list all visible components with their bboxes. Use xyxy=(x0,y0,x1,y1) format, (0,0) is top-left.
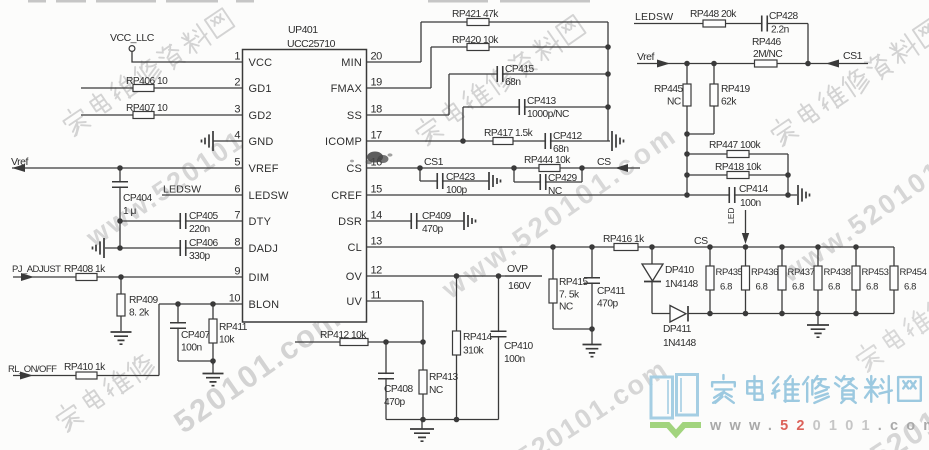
svg-text:LEDSW: LEDSW xyxy=(635,11,673,23)
resistor RP454 xyxy=(890,247,927,314)
svg-text:10: 10 xyxy=(229,293,241,305)
node VCC_LLC xyxy=(110,32,155,51)
svg-text:CP423: CP423 xyxy=(446,172,475,183)
svg-text:20: 20 xyxy=(371,51,383,63)
watermark bottom-right corner 520 xyxy=(864,381,929,450)
svg-text:CP409: CP409 xyxy=(422,211,451,222)
svg-text:CS: CS xyxy=(597,156,611,168)
svg-text:CP428: CP428 xyxy=(769,11,798,22)
wire OV pin12 xyxy=(367,273,543,279)
ground bottom join xyxy=(410,429,434,441)
svg-text:CP415: CP415 xyxy=(505,64,534,75)
capacitor CP428 xyxy=(762,11,799,36)
svg-text:CL: CL xyxy=(348,242,362,254)
svg-text:330p: 330p xyxy=(189,251,210,262)
svg-text:RP419: RP419 xyxy=(721,84,750,95)
capacitor CP404 xyxy=(112,168,152,248)
resistor RP418 row xyxy=(687,162,788,179)
diode DP411 1N4148 xyxy=(663,306,697,350)
wire RP415 CP411 join xyxy=(553,326,595,344)
svg-text:MIN: MIN xyxy=(341,57,362,69)
resistor RP414 branch xyxy=(453,276,493,420)
capacitor CP411 branch xyxy=(584,247,626,329)
svg-text:CP414: CP414 xyxy=(739,184,768,195)
resistor RP447 row xyxy=(687,140,788,158)
resistor RP416 xyxy=(603,234,645,251)
svg-text:ICOMP: ICOMP xyxy=(325,136,362,148)
wire GD1 pin2 xyxy=(81,87,243,89)
svg-text:RL_ON/OFF: RL_ON/OFF xyxy=(8,364,57,375)
watermark center www.520101.com xyxy=(435,119,683,305)
node Vref top right xyxy=(637,51,670,68)
op-amp U401 IC body UCC25710 xyxy=(243,24,367,322)
svg-text:GND: GND xyxy=(249,136,274,148)
resistor RP410 xyxy=(64,362,106,379)
svg-text:6.8: 6.8 xyxy=(792,282,804,293)
svg-text:62k: 62k xyxy=(721,97,737,108)
wire CP413 row xyxy=(463,107,608,141)
svg-text:RP421 47k: RP421 47k xyxy=(452,9,499,20)
capacitor CP405 xyxy=(180,211,218,235)
svg-text:100n: 100n xyxy=(181,343,202,354)
svg-text:RP413: RP413 xyxy=(429,372,458,383)
watermark bottom-right jiadian partial xyxy=(853,290,929,372)
svg-text:www.520101.com: www.520101.com xyxy=(709,418,929,434)
resistor RP448 xyxy=(690,9,737,27)
svg-text:DP411: DP411 xyxy=(663,324,692,335)
ground CREF xyxy=(798,185,810,205)
resistor RP453 xyxy=(852,247,889,314)
capacitor CP412 xyxy=(545,131,582,155)
svg-text:RP454: RP454 xyxy=(900,267,927,278)
node CS on bus xyxy=(694,235,708,247)
svg-text:UP401: UP401 xyxy=(288,24,318,36)
wire bus x687 xyxy=(684,131,690,195)
scan artifacts top edge xyxy=(28,0,590,3)
svg-text:CP410: CP410 xyxy=(504,341,533,352)
node Vref left arrow xyxy=(11,156,28,172)
wire ICOMP pin17 xyxy=(367,138,611,144)
svg-text:RP412 10k: RP412 10k xyxy=(320,330,367,341)
svg-text:68n: 68n xyxy=(505,77,521,88)
svg-text:RP416 1k: RP416 1k xyxy=(603,234,645,245)
svg-text:FMAX: FMAX xyxy=(331,83,363,95)
svg-text:4: 4 xyxy=(234,130,240,142)
svg-text:UCC25710: UCC25710 xyxy=(287,38,336,50)
svg-text:100n: 100n xyxy=(740,198,761,209)
resistor RP420 xyxy=(452,35,499,51)
svg-text:8. 2k: 8. 2k xyxy=(129,308,150,319)
svg-text:PJ_ADJUST: PJ_ADJUST xyxy=(12,264,61,275)
svg-text:100n: 100n xyxy=(504,354,525,365)
svg-text:68n: 68n xyxy=(553,144,569,155)
svg-text:DADJ: DADJ xyxy=(249,243,279,255)
watermark bottom-center 520101.com xyxy=(512,353,674,450)
svg-text:UV: UV xyxy=(346,296,362,308)
svg-text:6.8: 6.8 xyxy=(756,282,768,293)
wire RL to BLON xyxy=(13,375,159,377)
node OVP 160V xyxy=(505,263,542,292)
svg-text:CP411: CP411 xyxy=(597,286,626,297)
svg-text:1 μ: 1 μ xyxy=(123,206,136,217)
node PJ_ADJUST xyxy=(12,264,61,281)
svg-text:6.8: 6.8 xyxy=(828,282,840,293)
resistor RP419 branch xyxy=(687,64,750,135)
node CS1 top right xyxy=(808,50,868,68)
resistor RP421 xyxy=(452,9,499,26)
ground CP423 xyxy=(489,172,501,190)
node LED arrow xyxy=(726,207,749,244)
svg-text:7: 7 xyxy=(234,210,240,222)
svg-text:6.8: 6.8 xyxy=(904,282,916,293)
ground CL branch xyxy=(583,345,602,357)
svg-text:LED: LED xyxy=(726,207,736,224)
svg-text:CS1: CS1 xyxy=(424,156,444,168)
svg-text:CS1: CS1 xyxy=(843,50,863,62)
wire LED bottom bus xyxy=(652,311,894,317)
svg-text:CP405: CP405 xyxy=(189,211,218,222)
svg-text:CP412: CP412 xyxy=(553,131,582,142)
svg-text:RP444 10k: RP444 10k xyxy=(524,155,571,166)
wire right bus x608 xyxy=(605,22,611,141)
svg-text:NC: NC xyxy=(429,385,443,396)
svg-text:VREF: VREF xyxy=(249,163,279,175)
svg-text:RP447 100k: RP447 100k xyxy=(709,140,761,151)
wire LEDSW pin6 xyxy=(162,194,243,196)
node LEDSW pin6 xyxy=(163,184,201,196)
wire LEDSW row xyxy=(634,24,808,64)
svg-text:Vref: Vref xyxy=(637,51,654,63)
capacitor CP414 xyxy=(729,184,768,209)
svg-text:CREF: CREF xyxy=(331,190,362,202)
wire bottom join row xyxy=(386,417,499,429)
svg-text:9: 9 xyxy=(234,266,240,278)
logo url www.520101.com xyxy=(709,418,929,434)
svg-text:2: 2 xyxy=(234,77,240,89)
svg-text:17: 17 xyxy=(371,130,383,142)
resistor RP446 xyxy=(752,37,782,67)
wire FMAX pin19 xyxy=(367,47,609,88)
svg-text:RP414: RP414 xyxy=(463,332,492,343)
svg-text:5: 5 xyxy=(234,157,240,169)
svg-text:OVP: OVP xyxy=(507,263,528,275)
wire UV pin11 xyxy=(367,301,424,342)
wire RP412 row xyxy=(295,339,426,345)
svg-text:CP404: CP404 xyxy=(123,193,152,204)
logo book icon xyxy=(650,375,701,435)
watermark top-left xyxy=(60,7,236,137)
wire CL pin13 bus xyxy=(367,244,895,250)
svg-text:11: 11 xyxy=(371,290,382,302)
wire GND pin4 xyxy=(213,140,243,142)
svg-text:RP418 10k: RP418 10k xyxy=(715,162,762,173)
wire GD2 pin3 xyxy=(81,114,243,116)
svg-text:DIM: DIM xyxy=(249,272,270,284)
resistor RP408 xyxy=(64,264,106,281)
resistor RP438 xyxy=(814,247,851,314)
svg-text:19: 19 xyxy=(371,77,383,89)
resistor RP436 xyxy=(742,247,779,314)
capacitor CP423 branch xyxy=(420,168,489,196)
svg-text:RP436: RP436 xyxy=(751,267,778,278)
svg-text:3: 3 xyxy=(234,104,240,116)
svg-text:OV: OV xyxy=(346,271,363,283)
svg-text:NC: NC xyxy=(559,302,573,313)
capacitor CP429 branch xyxy=(514,168,582,197)
svg-text:RP437: RP437 xyxy=(788,267,815,278)
svg-text:CP429: CP429 xyxy=(548,173,577,184)
resistor RP435 xyxy=(706,247,743,314)
svg-text:CP413: CP413 xyxy=(527,96,556,107)
svg-text:CP407: CP407 xyxy=(181,330,210,341)
resistor RP412 xyxy=(320,330,368,346)
svg-text:RP417 1.5k: RP417 1.5k xyxy=(484,128,534,139)
ground RP411 xyxy=(203,361,224,386)
svg-text:GD1: GD1 xyxy=(249,83,272,95)
svg-text:14: 14 xyxy=(371,210,383,222)
node CS arrow right xyxy=(597,156,628,172)
wire CREF pin15 xyxy=(367,192,798,198)
svg-text:18: 18 xyxy=(371,104,383,116)
wire SS pin18 xyxy=(367,74,609,115)
ground RP409 xyxy=(111,332,132,344)
svg-text:DP410: DP410 xyxy=(665,265,694,276)
wire bus x788 xyxy=(785,154,791,195)
ink smudge near pin16 xyxy=(350,152,393,165)
wire DSR pin14 xyxy=(367,220,465,222)
svg-text:470p: 470p xyxy=(422,224,443,235)
svg-text:7. 5k: 7. 5k xyxy=(559,290,580,301)
svg-text:RP446: RP446 xyxy=(752,37,781,48)
resistor RP406 xyxy=(126,76,168,92)
svg-text:LEDSW: LEDSW xyxy=(249,190,290,202)
resistor RP415 branch xyxy=(549,247,588,329)
svg-text:13: 13 xyxy=(371,236,383,248)
logo text jiadianweixiuziliaowang xyxy=(712,375,921,403)
svg-text:RP406 10: RP406 10 xyxy=(126,76,168,87)
capacitor CP408 branch xyxy=(378,342,413,420)
svg-text:1N4148: 1N4148 xyxy=(665,279,699,290)
svg-text:6.8: 6.8 xyxy=(720,282,732,293)
svg-text:RP445: RP445 xyxy=(654,84,683,95)
wire VREF pin5 xyxy=(12,165,243,171)
svg-text:470p: 470p xyxy=(597,299,618,310)
ground LED bus xyxy=(807,314,829,338)
svg-text:12: 12 xyxy=(371,265,383,277)
svg-text:160V: 160V xyxy=(508,280,531,292)
watermark bottom-left 520101.com xyxy=(167,299,347,440)
svg-text:6: 6 xyxy=(234,184,240,196)
watermark bottom-left jiadian partial xyxy=(53,350,158,432)
ground pin4 xyxy=(202,131,214,151)
watermark center-top jiadian xyxy=(412,13,586,146)
wire CS pin16 xyxy=(367,165,641,171)
svg-text:RP408 1k: RP408 1k xyxy=(64,264,106,275)
wire DIM pin9 xyxy=(13,274,243,280)
svg-text:1: 1 xyxy=(234,51,240,63)
node CS1 label xyxy=(424,156,444,168)
svg-text:RP438: RP438 xyxy=(824,267,851,278)
svg-text:RP435: RP435 xyxy=(716,267,743,278)
ground DADJ xyxy=(93,238,105,258)
svg-text:RP409: RP409 xyxy=(129,295,158,306)
resistor RP437 xyxy=(778,247,815,314)
svg-text:RP410 1k: RP410 1k xyxy=(64,362,106,373)
svg-text:VCC_LLC: VCC_LLC xyxy=(110,32,155,44)
svg-text:CP408: CP408 xyxy=(384,384,413,395)
svg-text:220n: 220n xyxy=(189,224,210,235)
svg-text:RP448 20k: RP448 20k xyxy=(690,9,737,20)
ground DSR xyxy=(464,212,476,230)
watermark right www.520101.com xyxy=(775,112,929,289)
svg-text:RP411: RP411 xyxy=(219,322,248,333)
svg-text:RP407 10: RP407 10 xyxy=(126,103,168,114)
svg-text:CP406: CP406 xyxy=(189,238,218,249)
capacitor CP415 xyxy=(497,64,534,88)
IC pin names and numbers xyxy=(229,51,382,312)
ground ICOMP bus xyxy=(612,131,624,151)
wire DTY pin7 xyxy=(117,218,242,224)
watermark left www.520101.com xyxy=(80,84,311,253)
svg-text:6.8: 6.8 xyxy=(866,282,878,293)
svg-text:DSR: DSR xyxy=(338,216,362,228)
capacitor CP413 xyxy=(519,96,569,120)
svg-text:DTY: DTY xyxy=(249,216,272,228)
watermark top-right jiadian xyxy=(768,17,929,147)
svg-text:310k: 310k xyxy=(463,346,484,357)
svg-text:BLON: BLON xyxy=(249,299,280,311)
svg-text:2M/NC: 2M/NC xyxy=(753,49,782,60)
wire Vref row xyxy=(637,61,811,67)
wire MIN pin20 xyxy=(367,22,609,62)
svg-text:15: 15 xyxy=(371,184,383,196)
resistor RP413 branch xyxy=(419,342,458,420)
resistor RP444 xyxy=(524,155,571,172)
capacitor CP406 xyxy=(180,238,218,262)
svg-text:RP453: RP453 xyxy=(862,267,889,278)
node RL_ON/OFF xyxy=(8,364,57,380)
svg-text:8: 8 xyxy=(234,237,240,249)
wire DADJ pin8 xyxy=(105,245,243,251)
wire BLON pin10 xyxy=(159,301,243,375)
svg-text:470p: 470p xyxy=(384,397,405,408)
capacitor CP409 xyxy=(411,211,451,235)
node LEDSW top right xyxy=(635,11,673,23)
svg-text:1N4148: 1N4148 xyxy=(663,338,697,349)
resistor RP411 xyxy=(209,304,248,365)
resistor RP417 xyxy=(484,128,534,145)
svg-text:SS: SS xyxy=(347,110,362,122)
svg-text:2.2n: 2.2n xyxy=(771,25,789,36)
svg-text:CS: CS xyxy=(694,235,708,247)
svg-text:10k: 10k xyxy=(219,335,235,346)
wire VCC pin1 xyxy=(132,52,243,63)
diode DP410 1N4148 xyxy=(642,247,699,314)
resistor RP409 xyxy=(117,277,158,331)
resistor RP407 xyxy=(126,103,168,119)
capacitor CP407 xyxy=(170,304,213,361)
svg-text:RP420 10k: RP420 10k xyxy=(452,35,499,46)
svg-text:NC: NC xyxy=(667,97,681,108)
svg-text:VCC: VCC xyxy=(249,57,273,69)
svg-text:1000p/NC: 1000p/NC xyxy=(527,109,569,120)
svg-text:GD2: GD2 xyxy=(249,110,272,122)
capacitor CP410 branch xyxy=(491,276,534,420)
svg-text:CS: CS xyxy=(346,163,362,175)
svg-text:LEDSW: LEDSW xyxy=(163,184,201,196)
resistor RP445 branch xyxy=(654,64,691,135)
